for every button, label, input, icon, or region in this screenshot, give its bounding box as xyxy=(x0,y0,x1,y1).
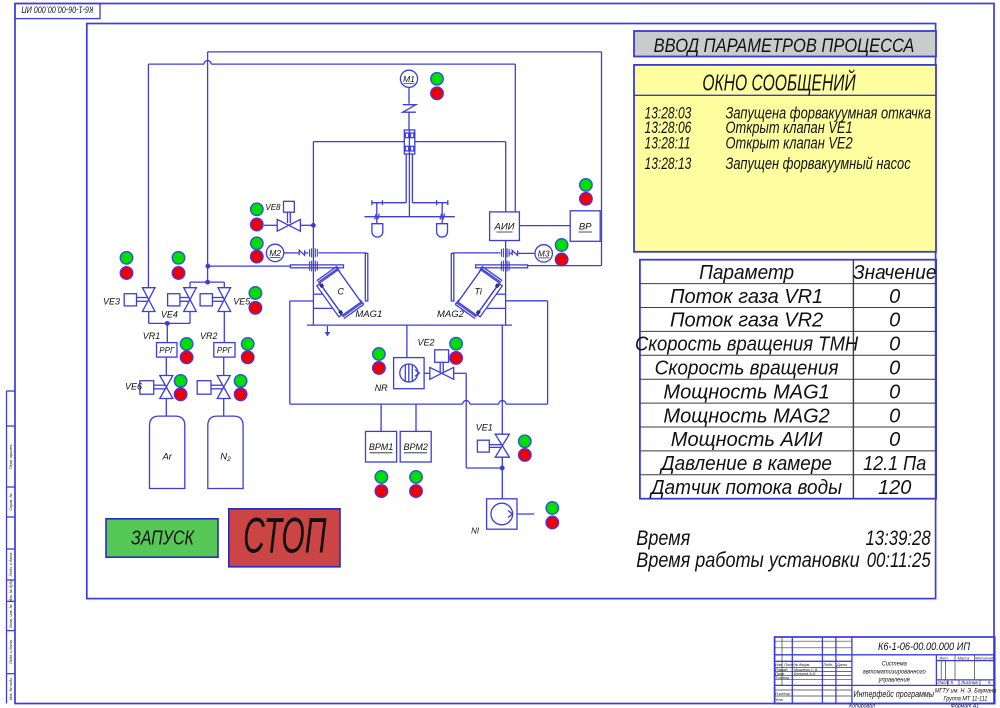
svg-text:Мощность АИИ: Мощность АИИ xyxy=(671,429,823,451)
svg-text:0: 0 xyxy=(889,381,900,403)
svg-text:СТОП: СТОП xyxy=(243,508,326,564)
svg-text:VE2: VE2 xyxy=(417,337,434,347)
svg-text:NI: NI xyxy=(471,527,480,536)
svg-text:Изм. Лист: Изм. Лист xyxy=(775,663,793,667)
svg-text:Скорость вращения ТМН: Скорость вращения ТМН xyxy=(635,334,858,356)
svg-text:ВР: ВР xyxy=(579,222,592,233)
svg-text:ВВОД ПАРАМЕТРОВ ПРОЦЕССА: ВВОД ПАРАМЕТРОВ ПРОЦЕССА xyxy=(654,35,915,57)
svg-text:Скорость вращения: Скорость вращения xyxy=(655,357,839,380)
svg-text:5: 5 xyxy=(951,680,954,685)
svg-text:Открыт клапан VE2: Открыт клапан VE2 xyxy=(726,135,853,153)
svg-text:К6-1-06-00.00.000 ИП: К6-1-06-00.00.000 ИП xyxy=(22,4,94,14)
svg-text:Лит.: Лит. xyxy=(938,655,948,660)
svg-text:13:39:28: 13:39:28 xyxy=(865,527,930,550)
svg-text:Система: Система xyxy=(882,660,908,667)
svg-text:NR: NR xyxy=(375,383,388,393)
svg-text:0: 0 xyxy=(889,286,900,308)
svg-text:N2: N2 xyxy=(220,452,231,464)
svg-text:Справ. №: Справ. № xyxy=(9,493,13,510)
svg-text:Группа МТ 11-111: Группа МТ 11-111 xyxy=(944,696,988,702)
svg-text:Поток газа VR2: Поток газа VR2 xyxy=(670,310,823,332)
svg-text:Подп. и дата: Подп. и дата xyxy=(9,640,13,664)
svg-text:M2: M2 xyxy=(269,248,281,258)
svg-text:VE8: VE8 xyxy=(265,203,281,212)
svg-text:MAG1: MAG1 xyxy=(355,309,382,320)
svg-text:Ti: Ti xyxy=(475,287,483,297)
svg-text:5: 5 xyxy=(988,680,991,685)
svg-text:Утв.: Утв. xyxy=(775,698,783,702)
svg-text:Запущен форвакуумный насос: Запущен форвакуумный насос xyxy=(726,156,912,174)
svg-text:Формат А1: Формат А1 xyxy=(951,703,979,708)
svg-text:M3: M3 xyxy=(538,248,550,258)
svg-text:M1: M1 xyxy=(403,74,415,84)
svg-text:Масштаб: Масштаб xyxy=(975,655,994,660)
svg-text:0: 0 xyxy=(889,310,900,332)
svg-text:Лист: Лист xyxy=(937,680,950,685)
svg-text:Подп. и дата: Подп. и дата xyxy=(9,553,13,577)
svg-text:управления: управления xyxy=(878,676,911,683)
svg-text:Ar: Ar xyxy=(161,452,172,463)
svg-text:0: 0 xyxy=(889,358,900,380)
svg-text:VE6: VE6 xyxy=(125,382,142,392)
svg-text:Давление в камере: Давление в камере xyxy=(659,453,832,476)
svg-text:Время: Время xyxy=(636,526,690,550)
svg-text:0: 0 xyxy=(889,405,900,427)
svg-text:MAG2: MAG2 xyxy=(437,309,465,320)
svg-text:Масса: Масса xyxy=(958,655,971,660)
svg-text:0: 0 xyxy=(889,334,900,356)
svg-text:120: 120 xyxy=(878,477,911,499)
svg-text:VE3: VE3 xyxy=(103,297,120,307)
svg-text:13:28:13: 13:28:13 xyxy=(645,155,692,173)
svg-text:Перв. примен.: Перв. примен. xyxy=(9,444,13,469)
svg-text:Значение: Значение xyxy=(853,261,937,284)
svg-text:№ докум.: № докум. xyxy=(794,663,810,667)
svg-text:Время работы установки: Время работы установки xyxy=(636,548,859,572)
svg-text:VE1: VE1 xyxy=(476,423,493,433)
svg-text:Параметр: Параметр xyxy=(699,261,794,284)
svg-text:Листов: Листов xyxy=(960,680,978,685)
svg-text:VE4: VE4 xyxy=(161,309,178,319)
svg-text:ВРМ1: ВРМ1 xyxy=(369,442,393,452)
svg-text:РРГ: РРГ xyxy=(159,346,175,355)
svg-text:Мощность MAG1: Мощность MAG1 xyxy=(663,381,829,403)
svg-text:АИИ: АИИ xyxy=(494,222,515,233)
svg-text:VR2: VR2 xyxy=(200,331,218,341)
svg-text:ЗАПУСК: ЗАПУСК xyxy=(131,527,195,549)
svg-text:Инв. № подл.: Инв. № подл. xyxy=(9,677,13,701)
svg-text:Н.контр.: Н.контр. xyxy=(775,692,791,696)
svg-text:13:28:11: 13:28:11 xyxy=(645,135,691,153)
svg-text:Интерфейс программы: Интерфейс программы xyxy=(854,689,935,699)
svg-text:Поток газа VR1: Поток газа VR1 xyxy=(670,286,823,308)
svg-text:Т.контр.: Т.контр. xyxy=(775,676,790,680)
svg-text:Мощность MAG2: Мощность MAG2 xyxy=(663,405,829,427)
svg-text:Датчик потока воды: Датчик потока воды xyxy=(649,477,842,500)
svg-text:00:11:25: 00:11:25 xyxy=(867,549,931,572)
svg-text:Подп.: Подп. xyxy=(824,663,834,667)
svg-text:Дата: Дата xyxy=(836,663,847,667)
svg-text:Копировал: Копировал xyxy=(849,703,875,708)
svg-text:МГТУ им. Н. Э. Баумана: МГТУ им. Н. Э. Баумана xyxy=(935,688,997,694)
svg-text:Инв. № дубл.: Инв. № дубл. xyxy=(9,579,13,602)
svg-text:Взам. инв. №: Взам. инв. № xyxy=(9,604,13,627)
svg-text:ОКНО СООБЩЕНИЙ: ОКНО СООБЩЕНИЙ xyxy=(702,69,856,96)
svg-text:ВРМ2: ВРМ2 xyxy=(403,442,427,452)
svg-text:0: 0 xyxy=(889,429,900,451)
svg-text:VE5: VE5 xyxy=(233,297,251,307)
svg-text:автоматизированного: автоматизированного xyxy=(863,668,927,675)
svg-text:Беликов А.И.: Беликов А.И. xyxy=(794,672,816,676)
svg-text:РРГ: РРГ xyxy=(217,346,233,355)
svg-text:VR1: VR1 xyxy=(143,331,161,341)
svg-text:К6-1-06-00.00.000 ИП: К6-1-06-00.00.000 ИП xyxy=(878,641,971,653)
svg-text:12.1 Па: 12.1 Па xyxy=(863,453,926,475)
svg-text:C: C xyxy=(338,287,345,297)
